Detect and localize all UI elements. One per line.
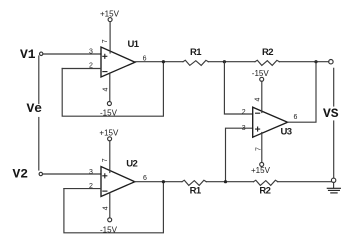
terminal +15V U2 — [108, 137, 112, 141]
svg-text:3: 3 — [89, 49, 93, 56]
wire V1 to U1 pin3 — [43, 53, 101, 55]
junction dot bottom rail / U3 pin3 — [224, 180, 227, 183]
wire U3 output to top rail — [288, 62, 316, 122]
svg-text:U2: U2 — [126, 159, 137, 170]
op-amp U3 minus input mark — [256, 112, 260, 114]
ground bar 2 — [329, 189, 340, 191]
resistor R1 top — [183, 60, 208, 65]
op-amp U1 plus input mark — [103, 54, 107, 58]
terminal +15V U3 — [260, 162, 264, 166]
junction dot U1 feedback on top rail — [162, 60, 165, 63]
resistor R2 top — [255, 60, 279, 65]
wire U1 pin4 to -15V — [109, 73, 111, 101]
wire top junction down to U3 pin2 — [224, 62, 252, 114]
junction dot top rail / U3 pin2 — [223, 60, 226, 63]
svg-text:-15V: -15V — [100, 225, 118, 234]
terminal VS bottom — [331, 178, 335, 182]
svg-text:4: 4 — [102, 88, 109, 92]
svg-text:+15V: +15V — [251, 166, 271, 175]
svg-text:U1: U1 — [128, 39, 140, 50]
wire VS vertical upper — [333, 68, 335, 106]
wire U3 pin7 to +15V — [261, 133, 263, 163]
wire U1 pin2 — [62, 68, 101, 70]
wire top rail R1 to R2 — [208, 61, 255, 63]
wire +15V to U2 pin7 — [109, 141, 111, 173]
wire V2 to U2 pin3 — [43, 173, 101, 175]
op-amp U2 plus input mark — [103, 174, 107, 178]
wire Ve upper segment — [38, 56, 40, 104]
wire U3 pin3 to bottom junction — [226, 128, 253, 181]
svg-text:Ve: Ve — [27, 101, 43, 116]
resistor R1 bottom — [182, 180, 206, 185]
wire +15V to U1 pin7 — [109, 22, 111, 53]
resistor R2 bottom — [254, 180, 278, 185]
wire U2 pin4 to -15V — [109, 193, 111, 218]
wire bottom rail R2 to ground — [278, 181, 332, 183]
op-amp U1 minus input mark — [103, 71, 107, 73]
wire top rail U1 out to R1 — [135, 61, 183, 63]
svg-text:U3: U3 — [281, 126, 292, 137]
op-amp U2 — [101, 167, 135, 197]
svg-text:-15V: -15V — [252, 69, 270, 78]
wire VS vertical lower — [333, 121, 335, 178]
svg-text:6: 6 — [143, 175, 147, 182]
svg-text:V1: V1 — [20, 47, 36, 62]
svg-text:4: 4 — [102, 206, 109, 210]
terminal VS top — [329, 60, 333, 64]
svg-text:R1: R1 — [190, 47, 202, 58]
wire -15V to U3 pin4 — [261, 81, 263, 112]
svg-text:R2: R2 — [259, 186, 270, 197]
op-amp U2 minus input mark — [103, 190, 107, 192]
terminal -15V U3 — [260, 77, 264, 81]
junction dot U2 feedback on bottom rail — [162, 180, 165, 183]
svg-text:3: 3 — [89, 169, 93, 176]
svg-text:7: 7 — [102, 39, 109, 43]
svg-text:R1: R1 — [190, 186, 202, 197]
wire Ve lower segment — [38, 118, 40, 171]
svg-text:7: 7 — [255, 147, 262, 151]
svg-text:-15V: -15V — [100, 108, 118, 117]
svg-text:VS: VS — [323, 106, 339, 121]
svg-text:6: 6 — [294, 114, 298, 121]
ground stub — [333, 183, 335, 188]
wire U2 feedback loop — [64, 182, 163, 233]
wire bottom rail R1 to R2 — [206, 181, 253, 183]
svg-text:V2: V2 — [13, 167, 29, 182]
ground bar 1 — [327, 187, 340, 189]
junction dot top rail / U3 output — [314, 60, 317, 63]
op-amp U3 — [253, 107, 288, 137]
svg-text:R2: R2 — [262, 47, 273, 58]
terminal V2 — [39, 172, 42, 175]
svg-text:7: 7 — [102, 158, 109, 162]
terminal V1 — [40, 52, 43, 55]
wire bottom rail U2 out to R1 — [135, 181, 182, 183]
svg-text:4: 4 — [255, 98, 262, 102]
ground bar 3 — [331, 192, 337, 194]
terminal -15V U2 — [108, 218, 112, 222]
terminal -15V U1 — [107, 102, 111, 106]
op-amp U3 plus input mark — [256, 127, 260, 131]
svg-text:3: 3 — [242, 125, 246, 132]
svg-text:2: 2 — [242, 109, 246, 116]
terminal +15V U1 — [108, 18, 112, 22]
wire top rail R2 to VS terminal — [279, 61, 328, 63]
op-amp U1 — [101, 47, 135, 77]
wire U1 feedback loop — [62, 62, 163, 116]
wire U2 pin2 — [64, 188, 101, 190]
